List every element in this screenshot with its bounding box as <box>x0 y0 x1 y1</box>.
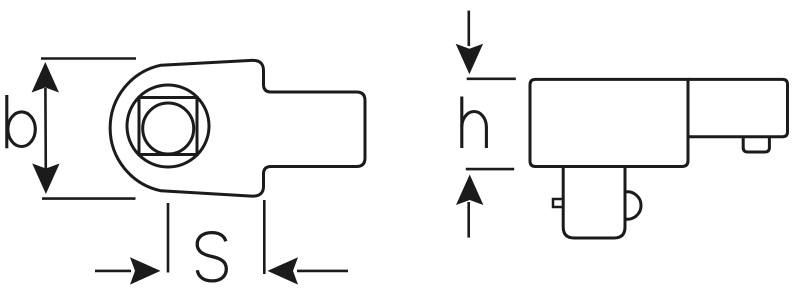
right view: release button on tang <box>553 199 563 207</box>
dimension b: upper arrowhead <box>32 62 59 93</box>
dimension S: right extension line <box>263 200 266 274</box>
dimension h: top extension line <box>467 78 516 81</box>
dimension h: bottom extension line <box>466 168 514 171</box>
right view: lower square-drive tang <box>563 167 625 239</box>
dimension h: down arrow shaft <box>467 11 470 46</box>
dimension h: up arrow shaft <box>467 202 470 238</box>
left view: outer circle of drive boss <box>127 85 209 167</box>
dimension b: top extension line <box>41 57 136 60</box>
left view: inner through-hole circle <box>143 103 194 154</box>
dimension b: vertical dimension line <box>44 88 47 170</box>
label h <box>462 97 487 149</box>
dimension b: bottom extension line <box>42 197 136 200</box>
right view: small tab under spigot <box>743 137 769 152</box>
dimension h: up arrowhead <box>456 175 483 206</box>
dimension S: left extension line <box>167 203 170 273</box>
right view: detent ball bump <box>625 192 641 219</box>
left view: square drive hole <box>139 98 197 155</box>
right view: main body block <box>530 79 688 166</box>
dimension h: down arrowhead <box>456 44 483 74</box>
dimension S: left arrow (pointing right) <box>95 270 131 273</box>
label b <box>7 95 36 148</box>
dimension b: lower arrowhead <box>32 164 59 195</box>
dimension S: right arrow (pointing left) <box>297 270 348 273</box>
label S <box>197 233 226 281</box>
right view: rectangular spigot plug <box>688 79 788 136</box>
left view: insert-tool head outline <box>110 60 365 196</box>
